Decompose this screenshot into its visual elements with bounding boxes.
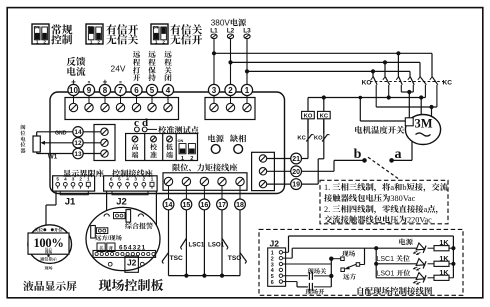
svg-text:12: 12 bbox=[74, 140, 82, 147]
svg-text:L3: L3 bbox=[243, 27, 251, 34]
svg-text:远方/现场: 远方/现场 bbox=[95, 233, 122, 242]
svg-text:a: a bbox=[395, 147, 402, 162]
svg-text:KC: KC bbox=[320, 114, 329, 120]
svg-text:8: 8 bbox=[103, 86, 108, 95]
svg-text:KC: KC bbox=[443, 80, 453, 87]
svg-text:现场: 现场 bbox=[45, 265, 53, 271]
svg-text:通信指示: 通信指示 bbox=[40, 256, 58, 262]
svg-text:16: 16 bbox=[201, 202, 209, 209]
svg-text:6: 6 bbox=[134, 86, 139, 95]
svg-text:9: 9 bbox=[87, 86, 92, 95]
svg-text:-: - bbox=[88, 77, 91, 87]
svg-text:b: b bbox=[354, 147, 362, 162]
svg-text:3: 3 bbox=[72, 177, 75, 182]
svg-text:现场关: 现场关 bbox=[308, 266, 328, 275]
svg-text:开: 开 bbox=[133, 73, 141, 84]
svg-text:W1: W1 bbox=[48, 154, 58, 161]
svg-text:3M: 3M bbox=[414, 117, 432, 131]
svg-text:无信关: 无信关 bbox=[106, 33, 139, 48]
svg-text:6: 6 bbox=[110, 177, 113, 182]
svg-text:6: 6 bbox=[271, 280, 274, 286]
svg-text:+: + bbox=[71, 78, 76, 87]
svg-text:+: + bbox=[103, 78, 108, 87]
svg-text:10: 10 bbox=[69, 86, 78, 95]
svg-text:2: 2 bbox=[79, 177, 82, 182]
svg-text:限位、力矩接线座: 限位、力矩接线座 bbox=[172, 162, 238, 173]
svg-text:1: 1 bbox=[90, 39, 93, 44]
svg-text:L2: L2 bbox=[227, 27, 235, 34]
svg-text:21: 21 bbox=[292, 156, 300, 163]
svg-text:1K: 1K bbox=[439, 268, 449, 277]
svg-text:5: 5 bbox=[150, 86, 155, 95]
svg-text:ON: ON bbox=[178, 138, 184, 143]
svg-text:持: 持 bbox=[148, 73, 156, 84]
svg-text:4: 4 bbox=[166, 86, 171, 95]
svg-text:17: 17 bbox=[218, 202, 226, 209]
svg-text:3: 3 bbox=[212, 86, 217, 95]
svg-text:端: 端 bbox=[166, 151, 173, 161]
svg-text:控制: 控制 bbox=[51, 33, 73, 48]
svg-text:综合报警: 综合报警 bbox=[125, 222, 153, 232]
svg-text:电流: 电流 bbox=[66, 64, 86, 78]
svg-text:7: 7 bbox=[118, 86, 123, 95]
svg-text:TSC: TSC bbox=[170, 255, 183, 262]
svg-text:显示界限座: 显示界限座 bbox=[63, 169, 105, 180]
svg-text:电机温度开关: 电机温度开关 bbox=[354, 124, 405, 136]
svg-text:KO: KO bbox=[304, 114, 313, 120]
svg-text:5: 5 bbox=[118, 177, 121, 182]
svg-text:TSO: TSO bbox=[228, 255, 242, 262]
svg-text:-: - bbox=[119, 77, 122, 87]
svg-text:1: 1 bbox=[36, 39, 39, 44]
svg-text:L1: L1 bbox=[210, 27, 218, 34]
svg-text:校准测试点: 校准测试点 bbox=[158, 125, 200, 136]
svg-text:闭: 闭 bbox=[164, 73, 172, 84]
svg-text:端: 端 bbox=[132, 151, 139, 161]
svg-text:2: 2 bbox=[43, 39, 46, 44]
svg-text:1: 1 bbox=[155, 39, 158, 44]
svg-text:20: 20 bbox=[292, 169, 300, 176]
svg-text:器: 器 bbox=[20, 148, 26, 155]
svg-text:5: 5 bbox=[56, 177, 59, 182]
svg-text:远方: 远方 bbox=[343, 271, 357, 281]
svg-text:LSC1 关位: LSC1 关位 bbox=[377, 254, 410, 264]
svg-text:14: 14 bbox=[165, 202, 173, 209]
svg-text:15: 15 bbox=[183, 202, 191, 209]
svg-text:13: 13 bbox=[74, 151, 82, 158]
svg-text:LSO1 开位: LSO1 开位 bbox=[377, 268, 411, 278]
svg-text:J2: J2 bbox=[127, 258, 137, 268]
svg-text:交流接触器线包电压为220Vac: 交流接触器线包电压为220Vac bbox=[324, 214, 432, 226]
svg-text:1K: 1K bbox=[439, 238, 449, 247]
svg-text:KO: KO bbox=[362, 80, 372, 87]
svg-text:LSO1: LSO1 bbox=[208, 242, 225, 249]
svg-text:2: 2 bbox=[97, 39, 100, 44]
svg-text:准: 准 bbox=[150, 151, 157, 161]
svg-text:3: 3 bbox=[134, 177, 137, 182]
svg-text:现场开: 现场开 bbox=[306, 287, 326, 296]
svg-text:1: 1 bbox=[245, 86, 250, 95]
svg-text:J1: J1 bbox=[65, 197, 76, 208]
svg-text:19: 19 bbox=[292, 182, 300, 189]
svg-text:4: 4 bbox=[64, 177, 67, 182]
svg-text:2: 2 bbox=[143, 177, 146, 182]
svg-text:4: 4 bbox=[126, 177, 129, 182]
svg-text:18: 18 bbox=[236, 202, 244, 209]
svg-text:电源: 电源 bbox=[399, 238, 414, 248]
svg-text:1K: 1K bbox=[439, 254, 449, 263]
svg-text:14: 14 bbox=[74, 129, 82, 136]
svg-text:1: 1 bbox=[87, 177, 90, 182]
svg-text:电源: 电源 bbox=[208, 134, 225, 145]
svg-text:自配现场控制接线图: 自配现场控制接线图 bbox=[356, 285, 433, 297]
svg-text:液晶显示屏: 液晶显示屏 bbox=[23, 279, 77, 294]
svg-text:现场控制板: 现场控制板 bbox=[99, 275, 164, 294]
svg-text:KC: KC bbox=[297, 135, 306, 141]
svg-text:J2: J2 bbox=[116, 197, 127, 208]
svg-text:2: 2 bbox=[228, 86, 233, 95]
svg-text:无信开: 无信开 bbox=[170, 33, 203, 48]
svg-text:1: 1 bbox=[151, 177, 154, 182]
svg-text:2: 2 bbox=[190, 156, 193, 162]
svg-text:2: 2 bbox=[162, 39, 165, 44]
svg-text:KO: KO bbox=[314, 135, 323, 141]
svg-text:LSC1: LSC1 bbox=[189, 242, 205, 249]
svg-text:24V: 24V bbox=[111, 63, 126, 75]
svg-text:缺相: 缺相 bbox=[230, 134, 246, 145]
svg-text:J2: J2 bbox=[270, 239, 280, 249]
